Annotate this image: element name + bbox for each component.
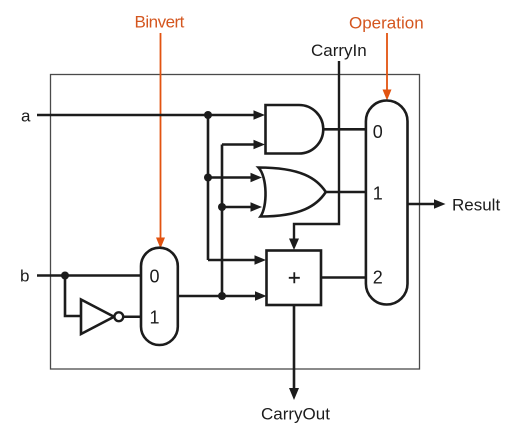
AND gate	[266, 105, 324, 154]
svg-text:b: b	[20, 267, 29, 286]
svg-text:a: a	[21, 107, 31, 126]
adder	[267, 251, 322, 306]
svg-text:1: 1	[149, 308, 159, 328]
OR gate	[259, 168, 326, 217]
wire b-mux output to adder	[178, 295, 256, 298]
svg-text:2: 2	[373, 268, 383, 288]
wire adder output	[321, 276, 366, 279]
wire inverter to mux	[123, 315, 141, 318]
wire a	[37, 114, 255, 117]
wire Result	[408, 203, 436, 206]
wire AND output	[323, 128, 366, 131]
inverter	[81, 300, 114, 335]
svg-text:CarryIn: CarryIn	[311, 41, 367, 60]
node b junction	[61, 272, 69, 280]
Operation control wire	[386, 33, 388, 91]
wire a vertical branch	[207, 115, 210, 260]
wire OR output	[326, 191, 366, 194]
svg-text:0: 0	[373, 122, 383, 142]
node b-OR junction	[218, 203, 226, 211]
svg-text:Binvert: Binvert	[135, 13, 185, 32]
svg-text:0: 0	[149, 267, 159, 287]
svg-text:Result: Result	[452, 196, 500, 215]
wire b to OR input	[222, 206, 252, 209]
svg-text:Operation: Operation	[349, 14, 424, 33]
mux Binvert (b / not b)	[141, 248, 178, 345]
wire a to OR input	[208, 176, 252, 179]
svg-text:CarryOut: CarryOut	[261, 405, 330, 424]
wire b to AND input	[222, 143, 255, 146]
node b-branch junction	[218, 292, 226, 300]
mux Operation (result select)	[366, 101, 408, 305]
wire b	[37, 274, 141, 277]
outer ALU box	[51, 75, 420, 370]
CarryIn wire	[294, 61, 339, 240]
wire b vertical branch	[221, 145, 224, 297]
Binvert control wire	[160, 33, 162, 240]
node a junction	[204, 111, 212, 119]
wire CarryOut	[293, 305, 296, 389]
svg-text:1: 1	[373, 184, 383, 204]
wire b to inverter	[65, 276, 81, 317]
wire a to adder input	[208, 259, 256, 262]
node a-OR junction	[204, 174, 212, 182]
